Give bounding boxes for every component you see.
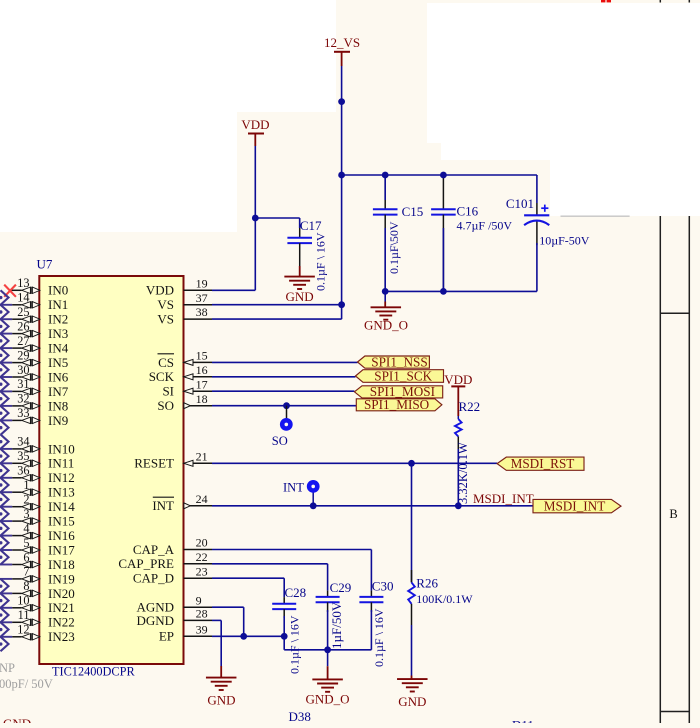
svg-text:VS: VS [157, 312, 174, 327]
pin 24 INT [184, 505, 213, 507]
svg-text:25: 25 [17, 305, 29, 319]
wire INT to MSDI_INT [212, 505, 533, 507]
pin 4 IN16 [0, 535, 12, 537]
wire pin37 VS [212, 304, 342, 306]
svg-text:0.1µF \ 16V: 0.1µF \ 16V [288, 615, 302, 674]
svg-text:INT: INT [152, 498, 174, 513]
pin 29 IN5 [0, 362, 12, 364]
junction [338, 172, 345, 179]
svg-text:4: 4 [23, 521, 29, 535]
svg-text:35: 35 [17, 449, 29, 463]
pin 18 SO [184, 405, 213, 407]
pin 14 IN1 [0, 304, 12, 306]
svg-text:16: 16 [196, 363, 208, 377]
svg-text:C30: C30 [372, 578, 394, 593]
svg-text:8: 8 [23, 579, 29, 593]
junction [408, 460, 415, 467]
svg-text:37: 37 [196, 291, 208, 305]
svg-text:12_VS: 12_VS [324, 35, 360, 50]
svg-text:CS: CS [158, 355, 174, 370]
pin 2 IN14 [0, 506, 12, 508]
wire EP net down-right [283, 636, 285, 650]
svg-text:C101: C101 [506, 196, 534, 211]
svg-text:SI: SI [162, 384, 174, 399]
svg-text:IN13: IN13 [48, 485, 75, 500]
svg-text:24: 24 [196, 492, 208, 506]
junction [440, 288, 447, 295]
capacitor C30 [370, 591, 372, 597]
svg-text:19: 19 [196, 276, 208, 290]
svg-text:C29: C29 [330, 580, 352, 595]
svg-text:RESET: RESET [134, 456, 174, 471]
svg-text:100K/0.1W: 100K/0.1W [416, 592, 473, 606]
svg-text:IN2: IN2 [48, 312, 68, 327]
port MSDI_RST [497, 457, 584, 470]
junction [338, 301, 345, 308]
svg-text:4.7µF /50V: 4.7µF /50V [457, 219, 513, 233]
wire VDD to C17 [255, 217, 299, 219]
ground GND under R26 [411, 676, 413, 680]
capacitor C17 [299, 218, 301, 238]
svg-text:36: 36 [17, 464, 29, 478]
pin 12 IN23 [0, 636, 12, 638]
pin 35 IN11 [0, 462, 12, 464]
pin 27 IN4 [0, 347, 12, 349]
svg-text:CAP_D: CAP_D [133, 571, 174, 586]
wire CAP_A to C30 [212, 549, 371, 551]
svg-text:14: 14 [17, 291, 29, 305]
pin 21 RESET [184, 462, 213, 464]
test point INT [312, 491, 314, 506]
svg-text:27: 27 [17, 334, 29, 348]
pin 19 VDD [184, 289, 213, 291]
svg-text:15: 15 [196, 349, 208, 363]
svg-text:6: 6 [23, 550, 29, 564]
pin 23 CAP_D [184, 577, 213, 579]
test point SO [286, 406, 288, 419]
svg-text:IN6: IN6 [48, 369, 69, 384]
svg-text:SCK: SCK [149, 369, 175, 384]
svg-text:10: 10 [17, 594, 29, 608]
pin 5 IN17 [0, 549, 12, 551]
svg-text:C16: C16 [457, 203, 479, 218]
pin 11 IN22 [0, 621, 12, 623]
svg-text:VDD: VDD [444, 372, 472, 387]
capacitor C101 polarized [524, 214, 549, 216]
svg-text:22: 22 [196, 550, 208, 564]
wire DGND to GND [212, 619, 221, 621]
wire bottom bus of capacitors [385, 290, 537, 292]
svg-text:26: 26 [17, 319, 29, 333]
svg-text:GND: GND [3, 716, 31, 723]
wire pin19 VDD [212, 289, 255, 291]
svg-text:SPI1_MISO: SPI1_MISO [364, 397, 429, 412]
svg-text:3: 3 [23, 507, 29, 521]
svg-text:21: 21 [196, 449, 208, 463]
svg-text:SPI1_NSS: SPI1_NSS [371, 355, 427, 370]
wire AGND down [212, 606, 244, 608]
capacitor C28 [283, 597, 285, 604]
svg-text:1µF/50V: 1µF/50V [329, 601, 344, 649]
svg-text:2: 2 [23, 493, 29, 507]
wire C101 branch [536, 175, 538, 203]
svg-text:IN3: IN3 [48, 326, 68, 341]
pin 33 IN9 [0, 419, 12, 421]
port SPI1_SCK [356, 370, 444, 383]
svg-text:IN0: IN0 [48, 283, 68, 298]
svg-text:GND_O: GND_O [364, 318, 408, 333]
svg-text:IN15: IN15 [48, 514, 75, 529]
pin 3 IN15 [0, 520, 12, 522]
pin 28 DGND [184, 619, 213, 621]
svg-text:IN16: IN16 [48, 528, 75, 543]
svg-text:0.1µF\50V: 0.1µF\50V [387, 221, 401, 274]
svg-text:0.1µF \ 16V: 0.1µF \ 16V [314, 232, 328, 291]
svg-text:IN8: IN8 [48, 398, 68, 413]
svg-text:GND: GND [207, 692, 235, 707]
svg-text:IN18: IN18 [48, 557, 75, 572]
svg-text:31: 31 [17, 377, 29, 391]
resistor R22 [457, 416, 459, 419]
pin 32 IN8 [0, 405, 12, 407]
pin 25 IN2 [0, 318, 12, 320]
svg-text:12: 12 [17, 623, 29, 637]
gray remnant line [561, 215, 630, 217]
wire RESET to MSDI_RST [212, 462, 497, 464]
svg-text:GND: GND [286, 289, 314, 304]
svg-text:VS: VS [157, 297, 174, 312]
junction [440, 172, 447, 179]
svg-text:IN10: IN10 [48, 441, 75, 456]
junction [324, 646, 331, 653]
svg-text:IN11: IN11 [48, 456, 74, 471]
svg-text:30: 30 [17, 363, 29, 377]
ground GND under DGND [220, 666, 222, 678]
pin 37 VS [184, 304, 213, 306]
wire CS to SPI1_NSS [212, 361, 358, 363]
svg-text:GND_O: GND_O [305, 692, 349, 707]
junction [252, 215, 259, 222]
pin 1 IN13 [0, 491, 12, 493]
svg-text:IN23: IN23 [48, 629, 75, 644]
svg-text:5: 5 [23, 536, 29, 550]
junction [455, 502, 462, 509]
capacitor C16 [442, 175, 444, 209]
svg-text:C17: C17 [300, 218, 322, 233]
svg-text:MSDI_INT: MSDI_INT [473, 491, 534, 506]
pin 16 SCK [184, 376, 213, 378]
capacitor C29 [327, 591, 329, 597]
svg-text:C15: C15 [402, 204, 424, 219]
junction [382, 172, 389, 179]
svg-text:7: 7 [23, 565, 29, 579]
op-amp U7 body [39, 276, 183, 664]
svg-text:34: 34 [17, 435, 29, 449]
sheet border right [659, 0, 661, 3]
svg-text:IN14: IN14 [48, 499, 75, 514]
svg-text:CAP_PRE: CAP_PRE [118, 556, 174, 571]
svg-text:18: 18 [196, 392, 208, 406]
wire RESET net down to R26 [411, 463, 413, 582]
svg-text:23: 23 [196, 564, 208, 578]
junction [310, 502, 317, 509]
port SPI1_NSS [358, 356, 430, 368]
svg-text:MSDI_RST: MSDI_RST [511, 456, 575, 471]
pin 30 IN6 [0, 376, 12, 378]
svg-text:IN12: IN12 [48, 470, 75, 485]
wire SCK to SPI1_SCK [212, 376, 356, 378]
pin 13 IN0 [10, 289, 22, 291]
white region top-middle [237, 0, 336, 112]
pin 17 SI [184, 390, 213, 392]
svg-text:32: 32 [17, 392, 29, 406]
svg-text:TIC12400DCPR: TIC12400DCPR [52, 665, 135, 679]
svg-text:00pF/ 50V: 00pF/ 50V [0, 677, 53, 691]
svg-text:SO: SO [272, 434, 288, 448]
wire CAP_D to C28 [212, 577, 284, 579]
svg-text:39: 39 [196, 622, 208, 636]
wire R26 to GND [411, 625, 413, 676]
wire SI to SPI1_MOSI [212, 390, 354, 392]
svg-text:28: 28 [196, 607, 208, 621]
svg-text:VDD: VDD [146, 283, 174, 298]
pin 15 CS [184, 361, 213, 363]
svg-text:D38: D38 [289, 709, 311, 723]
white region top-right [427, 3, 700, 160]
wire VDD vertical [254, 146, 256, 290]
white region top-left [0, 0, 237, 232]
junction [240, 633, 247, 640]
plus sign C101 [541, 207, 548, 209]
wire 12_VS vertical [341, 66, 343, 319]
svg-text:MSDI_INT: MSDI_INT [544, 499, 606, 514]
svg-text:INT: INT [283, 481, 304, 495]
svg-text:NP: NP [0, 661, 15, 675]
svg-text:SPI1_SCK: SPI1_SCK [374, 369, 432, 384]
svg-text:33: 33 [17, 406, 29, 420]
pin 39 EP [184, 635, 213, 637]
svg-text:IN7: IN7 [48, 384, 69, 399]
junction [382, 288, 389, 295]
pin 6 IN18 [0, 564, 12, 566]
svg-text:IN5: IN5 [48, 355, 68, 370]
junction [281, 633, 288, 640]
svg-text:9: 9 [196, 593, 202, 607]
pin 31 IN7 [0, 390, 12, 392]
svg-text:1: 1 [23, 478, 29, 492]
svg-text:10µF-50V: 10µF-50V [539, 233, 590, 247]
pin 34 IN10 [0, 448, 12, 450]
no-connect X on pin 13 [4, 285, 16, 297]
svg-text:17: 17 [196, 377, 208, 391]
pin 38 VS [184, 318, 213, 320]
pin 9 AGND [184, 606, 213, 608]
svg-text:D11: D11 [512, 718, 534, 724]
svg-text:13: 13 [17, 276, 29, 290]
svg-text:IN20: IN20 [48, 586, 75, 601]
wire EP bus [212, 635, 284, 637]
pin 20 CAP_A [184, 549, 213, 551]
svg-text:29: 29 [17, 348, 29, 362]
ground GND_O (filter) [384, 291, 386, 301]
pin 36 IN12 [0, 477, 12, 479]
svg-text:U7: U7 [37, 257, 53, 272]
svg-text:IN17: IN17 [48, 542, 75, 557]
wire top bus to capacitors [342, 174, 537, 176]
svg-text:IN22: IN22 [48, 615, 75, 630]
svg-text:IN21: IN21 [48, 600, 75, 615]
svg-text:IN4: IN4 [48, 341, 69, 356]
red marker top edge [601, 0, 605, 2]
svg-text:VDD: VDD [241, 117, 269, 132]
svg-text:EP: EP [159, 629, 174, 644]
svg-text:DGND: DGND [136, 613, 174, 628]
pin 22 CAP_PRE [184, 563, 213, 565]
port MSDI_INT [533, 499, 621, 512]
junction [338, 98, 345, 105]
svg-text:B: B [669, 507, 677, 521]
svg-text:0.1µF \ 16V: 0.1µF \ 16V [372, 608, 386, 667]
pin 7 IN19 [0, 578, 12, 580]
pin 26 IN3 [0, 333, 12, 335]
svg-text:3.32K/0.1W: 3.32K/0.1W [456, 442, 470, 504]
cut-off resistor network left edge [1, 290, 9, 305]
ground GND_O under C29 [327, 650, 329, 666]
svg-text:SO: SO [157, 398, 174, 413]
ground GND under C17 [299, 266, 301, 277]
junction SO [283, 402, 290, 409]
resistor R26 [408, 582, 415, 603]
pin 10 IN21 [0, 607, 12, 609]
svg-text:C28: C28 [285, 585, 307, 600]
port SPI1_MISO [356, 399, 442, 411]
svg-text:11: 11 [18, 608, 30, 622]
svg-text:GND: GND [398, 694, 426, 709]
wire R22 to INT net [457, 449, 459, 506]
svg-text:R26: R26 [416, 576, 438, 591]
pin 8 IN20 [0, 592, 12, 594]
svg-text:IN19: IN19 [48, 571, 75, 586]
port SPI1_MOSI [354, 386, 442, 398]
svg-text:38: 38 [196, 305, 208, 319]
svg-text:R22: R22 [459, 399, 481, 414]
wire CAP_PRE to C29 [212, 563, 328, 565]
svg-text:IN9: IN9 [48, 413, 68, 428]
wire SO to SPI1_MISO [212, 405, 356, 407]
capacitor C15 [384, 175, 386, 209]
svg-text:20: 20 [196, 536, 208, 550]
svg-text:CAP_A: CAP_A [133, 542, 175, 557]
svg-text:IN1: IN1 [48, 297, 68, 312]
wire pin38 VS [212, 318, 342, 320]
